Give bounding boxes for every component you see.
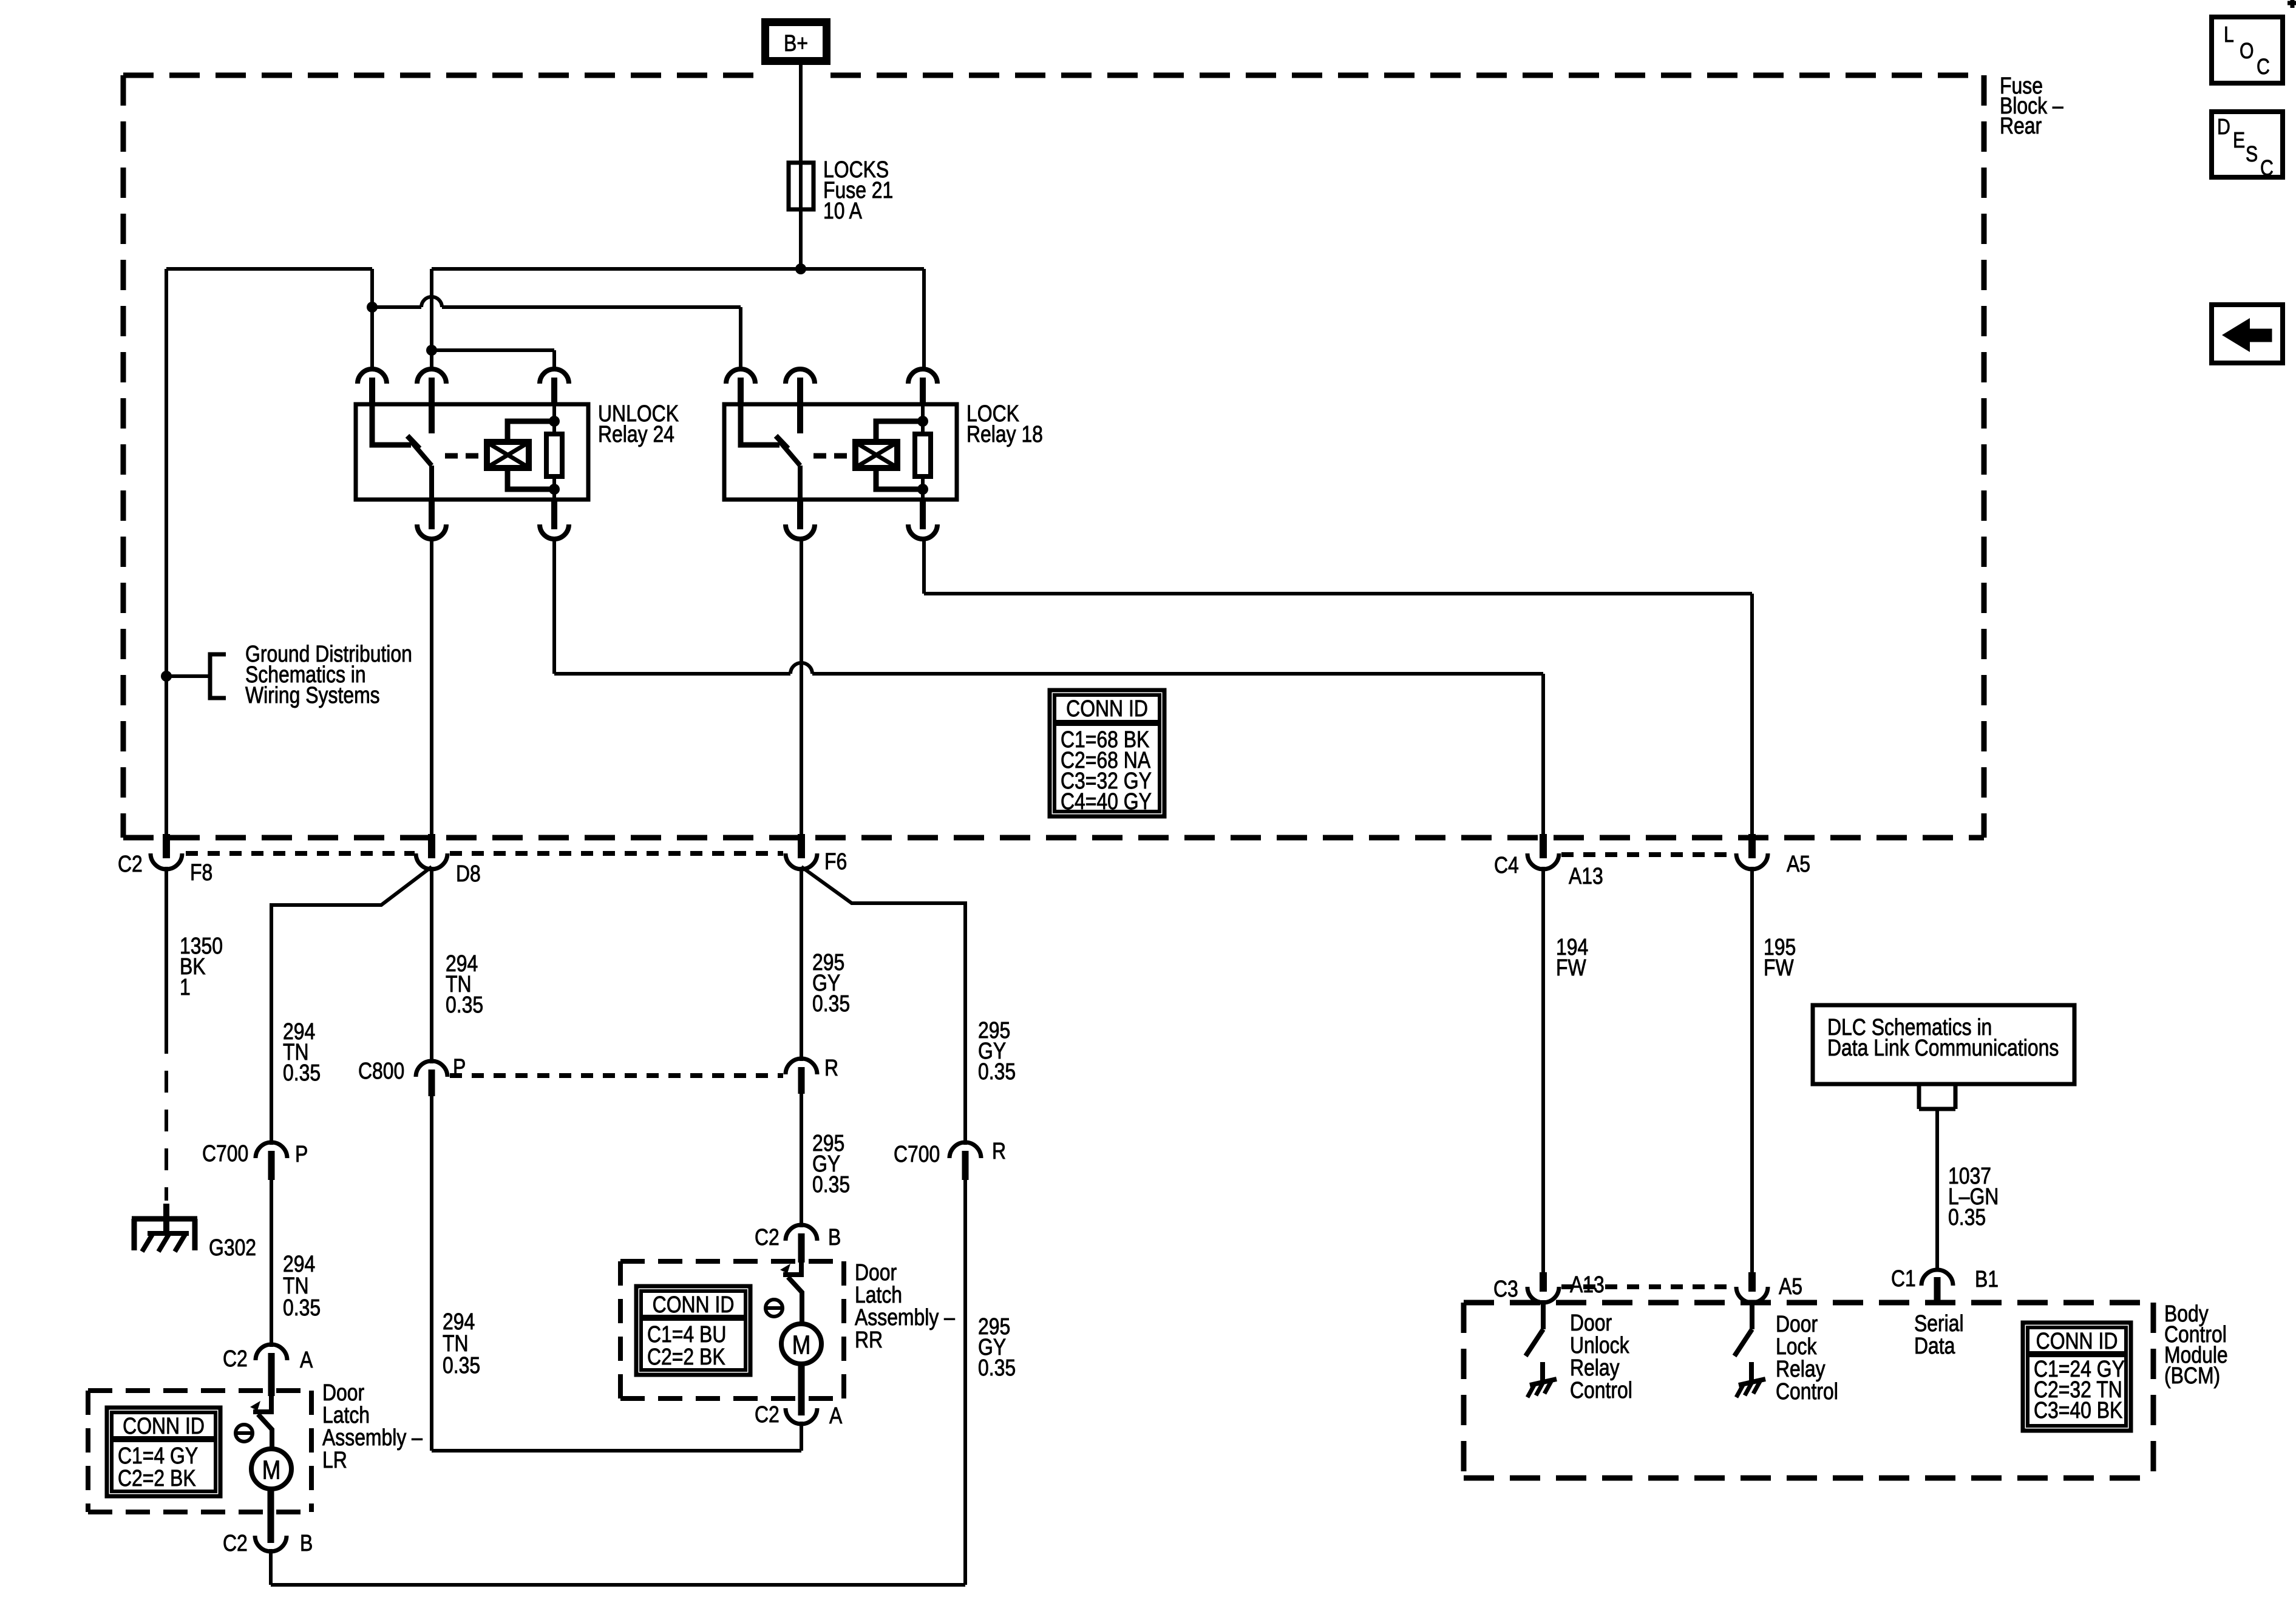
svg-text:R: R [824,1055,838,1080]
svg-text:CONN ID: CONN ID [2036,1328,2118,1354]
svg-text:C700: C700 [894,1141,940,1167]
svg-text:O: O [2240,39,2254,64]
svg-text:Control: Control [1776,1378,1838,1404]
svg-text:Door: Door [322,1380,364,1405]
svg-text:F8: F8 [190,859,212,885]
svg-text:B1: B1 [1975,1266,1999,1292]
svg-text:C2=2 BK: C2=2 BK [647,1344,725,1369]
svg-text:Control: Control [1570,1377,1632,1403]
svg-text:FW: FW [1556,955,1586,980]
svg-text:0.35: 0.35 [443,1352,480,1378]
svg-text:C1=4 GY: C1=4 GY [118,1443,198,1468]
svg-text:C4=40 GY: C4=40 GY [1061,788,1152,814]
svg-text:A5: A5 [1779,1273,1802,1299]
svg-text:C4: C4 [1494,852,1519,878]
svg-text:P: P [295,1141,308,1167]
svg-text:CONN ID: CONN ID [653,1292,735,1317]
svg-text:C1: C1 [1891,1266,1916,1291]
svg-text:Rear: Rear [2000,113,2042,138]
svg-text:A: A [829,1403,843,1428]
svg-text:1: 1 [180,974,191,1000]
svg-text:C2: C2 [223,1530,248,1556]
svg-text:CONN ID: CONN ID [123,1413,205,1439]
svg-text:Unlock: Unlock [1570,1332,1629,1358]
svg-text:FW: FW [1764,955,1794,980]
svg-text:C2: C2 [118,851,143,876]
svg-text:R: R [992,1138,1006,1164]
svg-text:D: D [2217,115,2230,140]
svg-text:C3: C3 [1493,1276,1518,1301]
svg-text:Assembly –: Assembly – [855,1304,955,1330]
svg-text:0.35: 0.35 [978,1059,1016,1084]
svg-text:E: E [2233,129,2245,153]
svg-text:CONN ID: CONN ID [1066,696,1148,721]
svg-text:Door: Door [1570,1310,1612,1335]
svg-text:C: C [2257,55,2270,80]
svg-text:M: M [262,1454,281,1485]
svg-text:Door: Door [855,1259,897,1285]
svg-text:Door: Door [1776,1311,1818,1337]
svg-text:Wiring Systems: Wiring Systems [245,682,380,708]
svg-text:A13: A13 [1569,863,1603,889]
svg-text:C700: C700 [202,1141,248,1166]
svg-text:Latch: Latch [855,1282,902,1307]
svg-text:0.35: 0.35 [978,1355,1016,1380]
svg-text:C2: C2 [223,1346,248,1371]
svg-text:RR: RR [855,1327,883,1352]
svg-text:A13: A13 [1570,1272,1605,1297]
svg-text:Serial: Serial [1914,1310,1964,1336]
svg-text:F6: F6 [824,849,847,874]
svg-text:Relay 18: Relay 18 [966,421,1043,447]
svg-text:0.35: 0.35 [1948,1204,1986,1230]
svg-text:(BCM): (BCM) [2164,1363,2220,1388]
svg-text:LR: LR [322,1447,347,1473]
svg-text:0.35: 0.35 [812,1171,850,1197]
svg-text:D8: D8 [456,861,481,886]
svg-text:C2=2 BK: C2=2 BK [118,1465,196,1491]
svg-text:P: P [453,1054,466,1080]
svg-text:0.35: 0.35 [812,991,850,1016]
svg-text:L: L [2224,23,2234,47]
svg-text:Relay 24: Relay 24 [598,421,674,447]
svg-text:C2: C2 [755,1224,779,1250]
svg-text:B: B [300,1530,313,1556]
svg-text:A5: A5 [1787,851,1810,876]
svg-text:C800: C800 [358,1058,404,1083]
svg-text:Relay: Relay [1570,1355,1620,1380]
svg-text:0.35: 0.35 [283,1060,321,1085]
svg-text:C1=4 BU: C1=4 BU [647,1321,726,1347]
svg-text:B: B [828,1224,841,1250]
svg-text:Relay: Relay [1776,1356,1826,1381]
svg-text:C: C [2260,157,2274,181]
svg-text:0.35: 0.35 [446,992,483,1017]
svg-text:G302: G302 [209,1235,256,1260]
svg-text:Lock: Lock [1776,1334,1817,1359]
svg-text:10 A: 10 A [823,198,862,223]
svg-text:C2: C2 [755,1402,779,1427]
svg-text:Data: Data [1914,1333,1955,1358]
svg-text:Assembly –: Assembly – [322,1425,423,1450]
svg-text:S: S [2246,143,2258,167]
svg-text:0.35: 0.35 [283,1295,321,1320]
svg-text:Latch: Latch [322,1402,370,1428]
svg-text:C3=40 BK: C3=40 BK [2034,1397,2122,1423]
svg-text:B+: B+ [784,30,808,56]
svg-text:A: A [300,1347,313,1372]
svg-text:M: M [792,1329,811,1360]
svg-text:Data Link Communications: Data Link Communications [1827,1035,2059,1060]
